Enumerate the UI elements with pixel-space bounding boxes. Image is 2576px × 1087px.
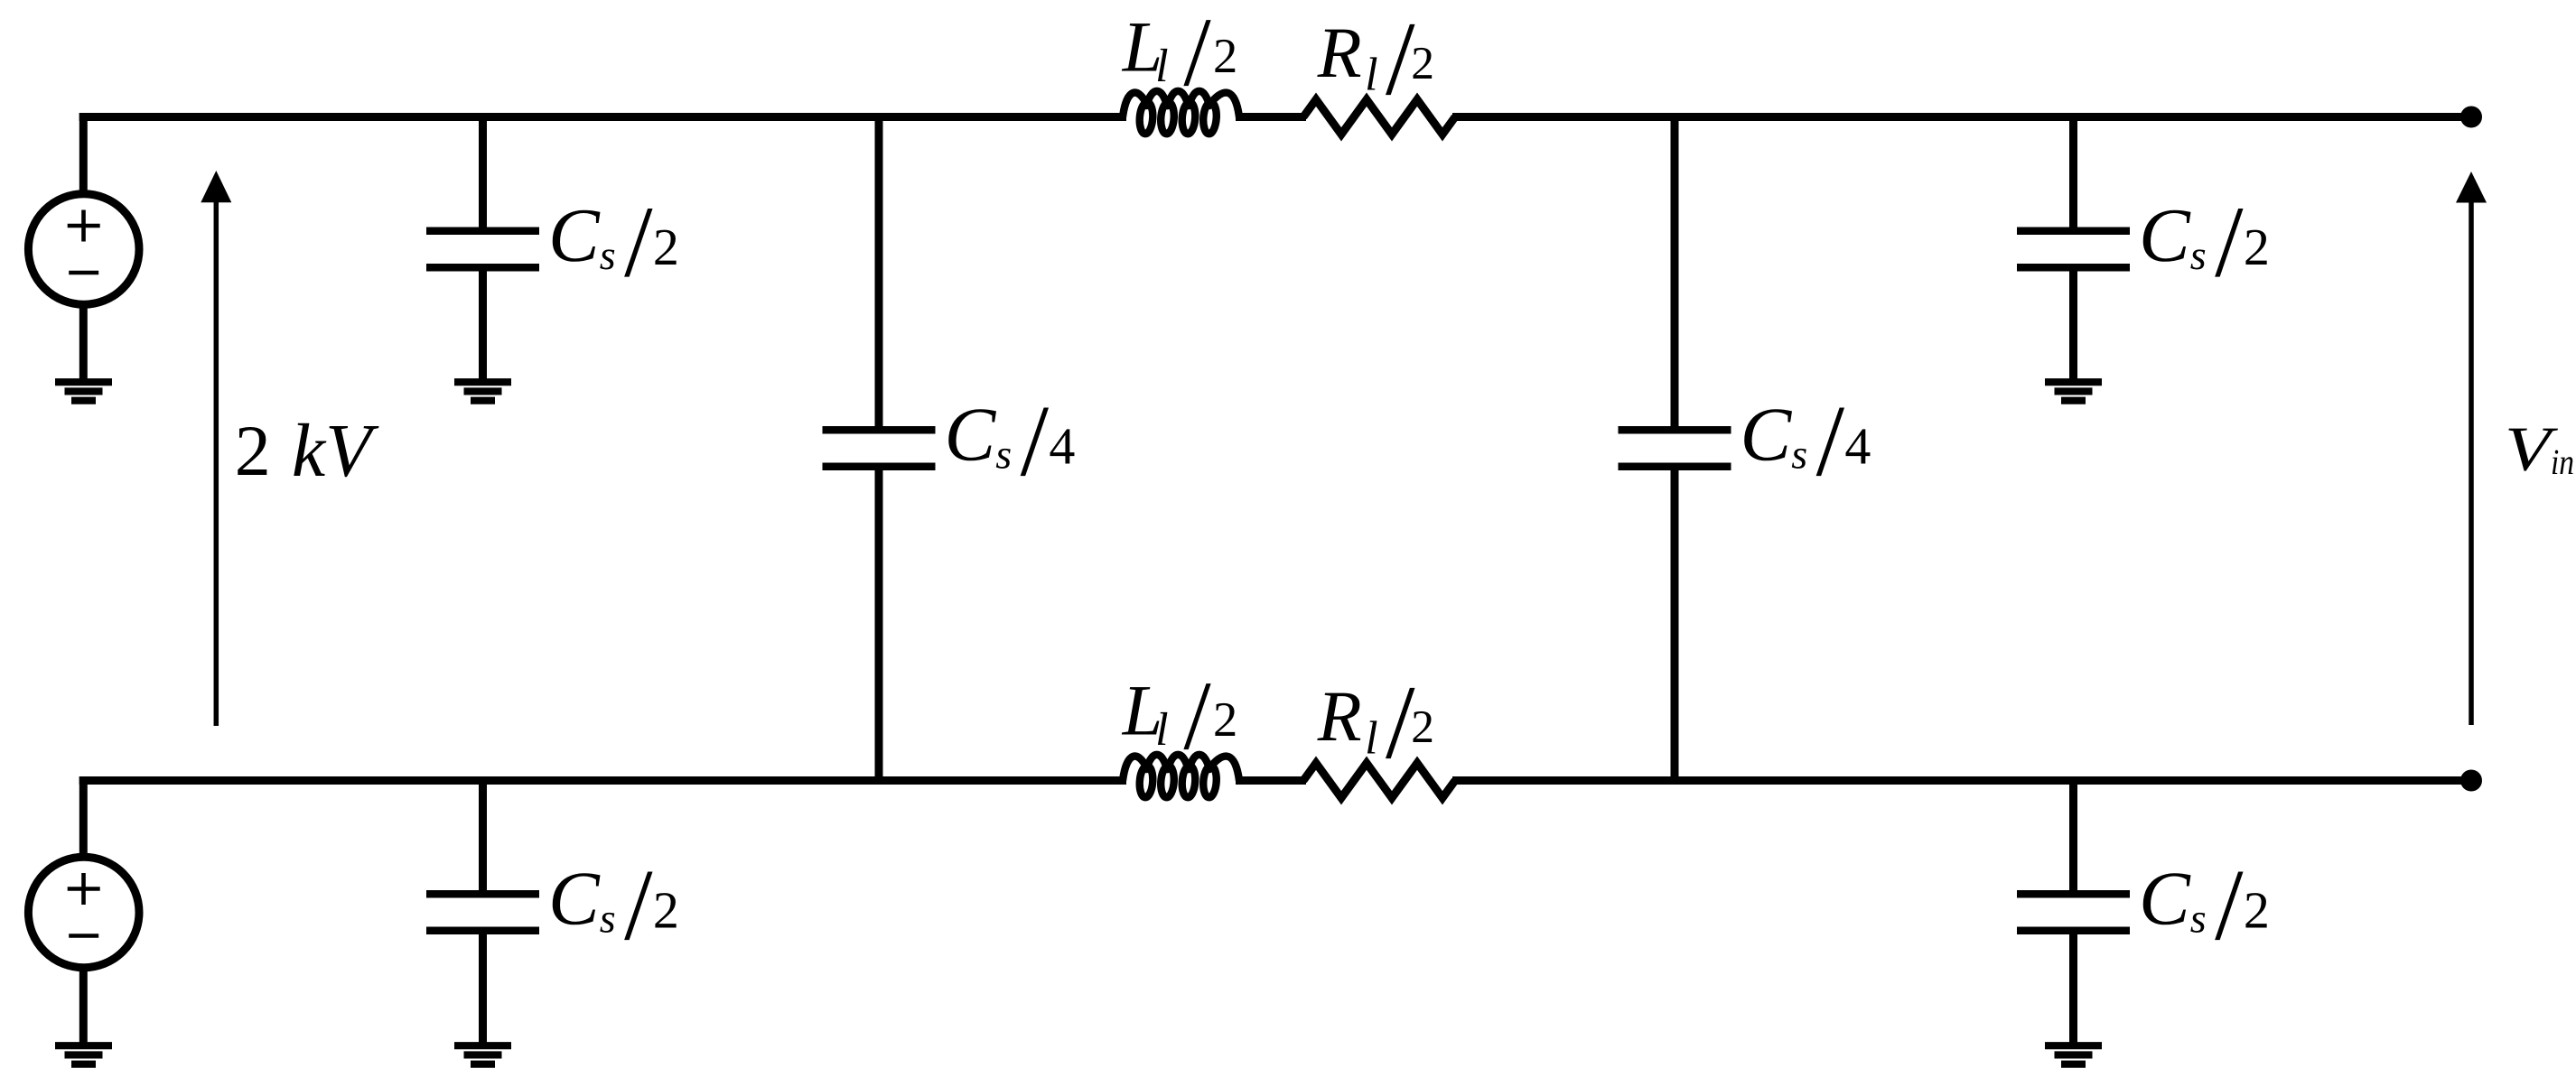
wire bottom rail middle: [1236, 776, 1306, 785]
svg-text:R: R: [1317, 677, 1362, 757]
resistor Rl/2 (bottom): [1303, 763, 1455, 798]
svg-text:C: C: [548, 857, 601, 942]
label 2 kV: [235, 409, 379, 493]
ground (bottom-right cap): [2045, 1045, 2102, 1064]
wire top rail left: [79, 113, 1126, 121]
svg-text:2: 2: [235, 412, 271, 491]
capacitor Cs/2 top-left: [426, 117, 539, 384]
resistor Rl/2 (top): [1303, 99, 1455, 135]
label Cs/4 mid-right: [1741, 385, 1871, 497]
label Cs/2 top-right: [2139, 186, 2270, 299]
label Ll/2 (bottom): [1122, 661, 1237, 770]
voltage arrow Vin: [2456, 172, 2487, 725]
svg-text:R: R: [1317, 14, 1362, 93]
svg-text:/: /: [2215, 186, 2244, 299]
svg-text:2: 2: [2244, 218, 2270, 276]
svg-text:/: /: [1816, 385, 1845, 497]
label Rl/2 (top): [1317, 1, 1434, 117]
inductor Ll/2 (bottom): [1123, 755, 1239, 798]
label Cs/2 top-left: [548, 186, 679, 299]
svg-text:C: C: [2139, 193, 2191, 278]
wire mid-left vertical upper: [875, 117, 883, 428]
svg-text:4: 4: [1049, 417, 1075, 476]
svg-text:kV: kV: [292, 409, 379, 493]
svg-text:C: C: [945, 393, 997, 478]
ground (top-right cap): [2045, 382, 2102, 401]
svg-text:2: 2: [653, 218, 679, 276]
wire top rail right: [1452, 113, 2471, 121]
capacitor Cs/4 mid-right: [1619, 430, 1731, 466]
svg-text:in: in: [2551, 441, 2574, 482]
capacitor Cs/2 top-right: [2017, 117, 2130, 384]
svg-text:s: s: [1791, 432, 1807, 478]
svg-text:s: s: [600, 896, 616, 942]
svg-text:2: 2: [1213, 692, 1237, 747]
capacitor Cs/2 bottom-right: [2017, 781, 2130, 1047]
svg-text:2: 2: [1411, 701, 1434, 753]
svg-text:/: /: [2215, 849, 2244, 962]
svg-text:/: /: [1021, 385, 1050, 497]
label Vin: [2505, 415, 2574, 485]
node: top-right terminal: [2460, 107, 2482, 128]
wire mid-right vertical upper: [1671, 117, 1679, 428]
voltage source V1 (top): [28, 113, 139, 383]
voltage arrow 2 kV: [201, 171, 231, 726]
svg-text:l: l: [1155, 704, 1168, 756]
svg-text:2: 2: [1411, 38, 1434, 89]
label Ll/2 (top): [1122, 0, 1237, 107]
svg-text:/: /: [1183, 0, 1211, 107]
svg-text:4: 4: [1844, 417, 1871, 476]
label Cs/2 bottom-right: [2139, 849, 2270, 962]
svg-text:C: C: [548, 193, 601, 278]
svg-text:2: 2: [653, 881, 679, 940]
wire top rail middle: [1236, 113, 1306, 121]
svg-text:2: 2: [1213, 28, 1237, 83]
svg-text:s: s: [995, 432, 1012, 478]
svg-text:/: /: [624, 186, 653, 299]
label Cs/2 bottom-left: [548, 849, 679, 962]
label Rl/2 (bottom): [1317, 664, 1434, 781]
svg-text:l: l: [1365, 49, 1377, 100]
label Cs/4 mid-left: [945, 385, 1076, 497]
ground (bottom-left cap): [454, 1045, 511, 1064]
svg-text:/: /: [624, 849, 653, 962]
ground (bottom source): [55, 1045, 112, 1064]
svg-text:C: C: [1741, 393, 1793, 478]
svg-text:2: 2: [2244, 881, 2270, 940]
wire mid-left vertical lower: [875, 469, 883, 781]
wire mid-right vertical lower: [1671, 469, 1679, 781]
voltage source V2 (bottom): [28, 776, 139, 1046]
ground (top source): [55, 382, 112, 401]
wire bottom rail right: [1452, 776, 2471, 785]
ground (top-left cap): [454, 382, 511, 401]
svg-text:C: C: [2139, 857, 2191, 942]
svg-text:l: l: [1365, 712, 1377, 764]
svg-text:l: l: [1155, 41, 1168, 92]
capacitor Cs/2 bottom-left: [426, 781, 539, 1047]
svg-text:s: s: [600, 232, 616, 278]
wire bottom rail left: [79, 776, 1126, 785]
inductor Ll/2 (top): [1123, 91, 1239, 135]
svg-text:/: /: [1183, 661, 1211, 770]
capacitor Cs/4 mid-left: [823, 430, 936, 466]
node: bottom-right terminal: [2460, 770, 2482, 792]
svg-text:s: s: [2190, 896, 2207, 942]
svg-text:s: s: [2190, 232, 2207, 278]
